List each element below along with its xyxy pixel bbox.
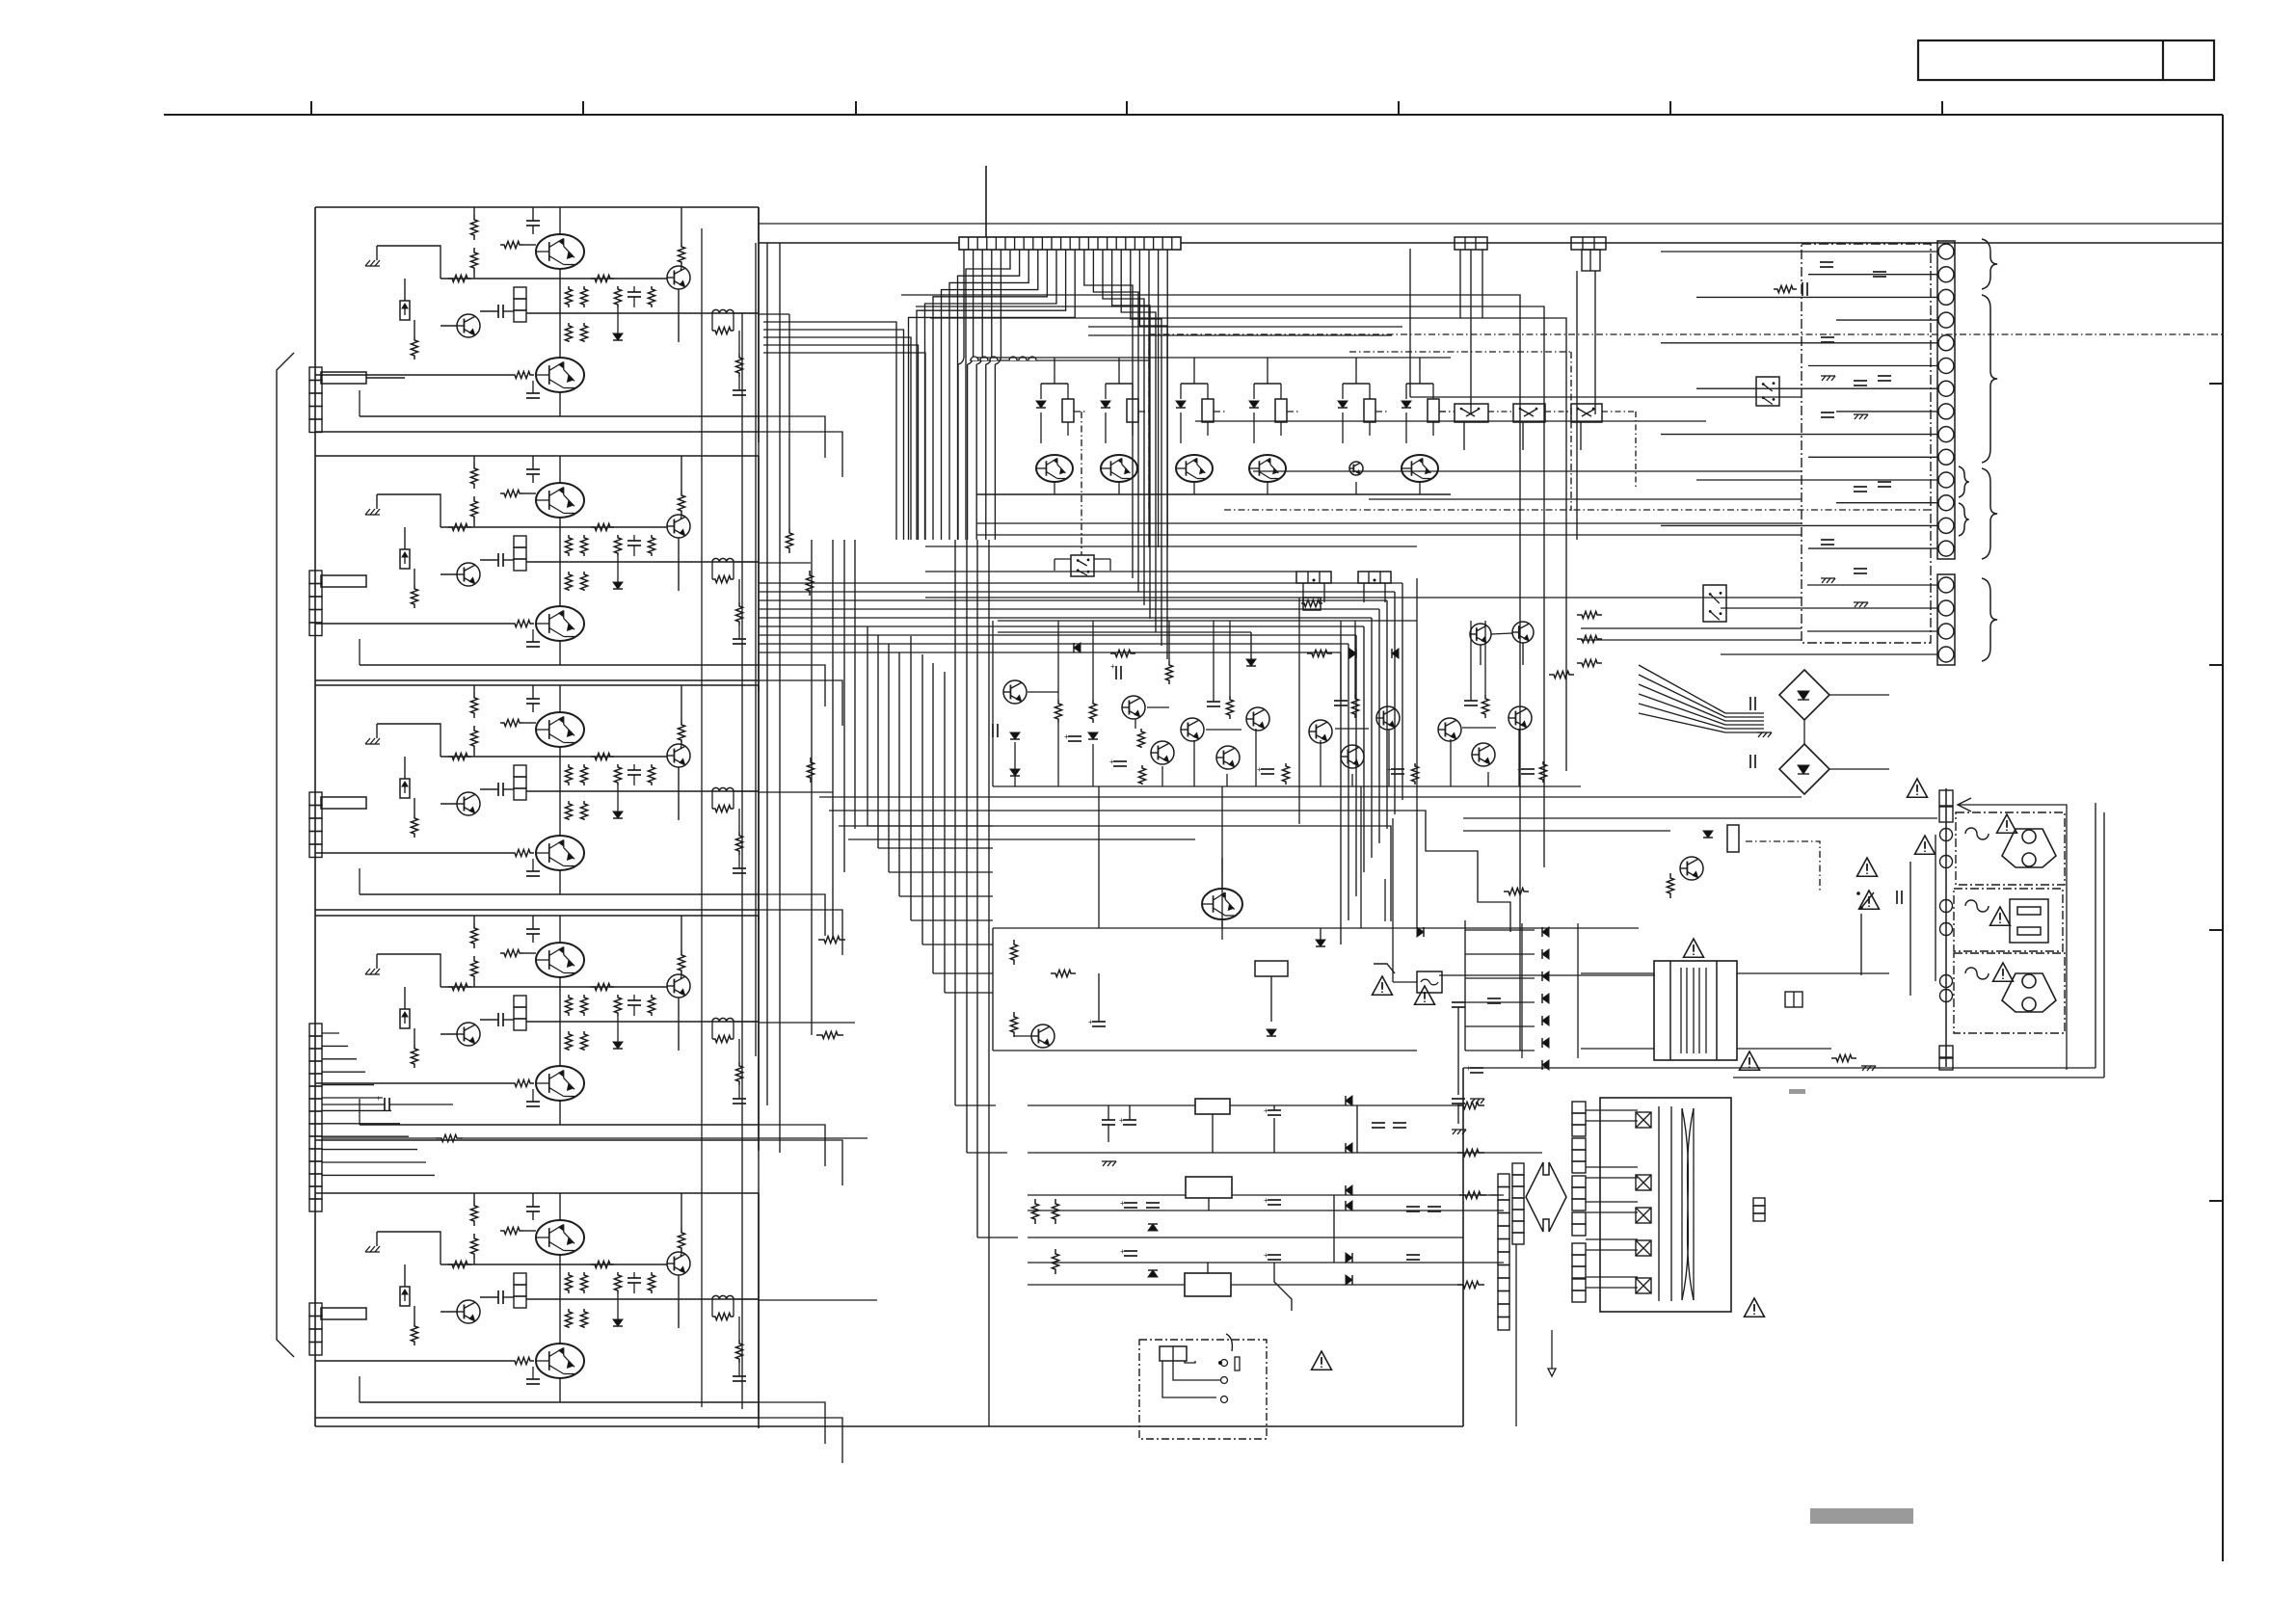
terminal circle [1938,404,1954,419]
capacitor CH5 C4 [526,1378,540,1380]
resistor CH2 R6 [591,523,614,530]
wire CH3 Q3 base [315,852,511,854]
resistor CH5 R14 [511,1357,534,1364]
warning mark [1857,858,1878,876]
wire stack to winding [1586,1109,1638,1111]
connector CN10 strip [959,237,1181,250]
svg-text:+: + [1120,1199,1125,1208]
transistor Q37 [1341,745,1364,768]
wire CN10 right staircase [1084,250,1133,578]
diode Db2 [1148,1270,1158,1277]
AC outlet box 2 [1954,889,2063,951]
terminal circle AC [1940,975,1953,988]
power transistor CH5 Q1 [536,1220,584,1255]
transistor CH5 Q2 [457,1300,480,1323]
wire CH4 bottom rails [360,1124,759,1126]
resistor [1364,399,1375,422]
diode [1402,401,1411,408]
transistor Q32 [1151,741,1174,764]
resistor CH5 R7 [411,1322,417,1345]
capacitor CH4 C1 [526,928,540,930]
warning mark [1997,814,2017,833]
inductor CH3 L1 [712,787,734,791]
wire CH1 vert Q1-Q3 [559,269,561,358]
capacitor CH2 C1 [526,468,540,470]
chassis ground CH1 [365,260,370,266]
capacitor C52 electrolytic [1487,998,1501,999]
title block [1918,40,2214,80]
resistor CH4 R2 [470,956,477,981]
resistor CH5 R8 [565,1272,572,1293]
connector CN2 [309,571,322,584]
transistor Q35 [1246,707,1269,731]
capacitor CH3 C3 [627,769,641,771]
IC1 lead [1212,1114,1214,1153]
wire CH3 [473,751,475,757]
resistor CH2 R1 [470,464,477,489]
capacitor cell tops [1207,701,1220,703]
transistor Q39 [1438,718,1461,741]
terminal circle AC [1940,990,1953,1002]
resistor CH2 R5 [448,523,471,530]
resistor Rs3 [1051,970,1076,976]
power transistor CH5 Q3 [536,1344,584,1378]
resistor [1127,399,1138,422]
capacitor C10 [992,724,994,737]
resistor CH1 R16 [735,354,742,377]
wire CH5 Q3 base [315,1360,511,1362]
wire CH1 mid rail [441,278,667,279]
resistor CH5 R1 [470,1201,477,1226]
resistor cell bottoms [1282,763,1289,785]
relay contacts K1 [1455,404,1488,422]
winding crossboxes [1636,1112,1651,1128]
driver block dash-dot boundary [1148,334,1150,510]
amplifier channel CH2 frame [315,455,759,457]
resistor CH1 R12 [614,286,621,307]
amplifier channel CH1 frame [315,206,759,208]
wire CH4 output [734,1021,759,1023]
capacitor CH5 C2 electrolytic [497,1290,499,1304]
svg-text:+: + [1110,662,1115,671]
terminal circle [1938,624,1954,639]
svg-text:+: + [1257,765,1262,774]
resistor R30b [1165,661,1172,684]
diode Dp1 [1542,949,1549,959]
bias block CH5 [514,1273,526,1285]
warning mark [1740,1051,1760,1070]
diode D14 [1349,649,1356,658]
wire dashdot [1074,411,1087,412]
wire CH2 vert Q1-Q3 [559,518,561,606]
wire CH2 rail2 [526,561,759,563]
resistor CH5 R15 [712,1313,734,1319]
wire CH3 Q4 leads [678,767,680,820]
resistor CH1 R2 [470,248,477,273]
capacitor CH1 C1 [526,220,540,222]
resistor bus R21 [806,571,813,596]
transistor Q43 [1512,622,1534,643]
wire strong verticals [1298,598,1300,824]
resistor CH1 R15 [712,327,734,333]
wire [1405,412,1407,443]
diode CH3 D1 [613,811,623,818]
svg-text:+: + [1119,1116,1124,1125]
diode D10 [1010,732,1020,739]
transistor CH2 Q2 [457,563,480,586]
wire cell base links [1206,729,1241,731]
resistor CH3 R5 [448,753,471,759]
wire CH1 output [734,312,759,314]
diode Dp0 [1542,927,1549,937]
transistor Qs2 darlington [1221,858,1223,872]
capacitor CH2 C5 [733,638,746,640]
resistor bus R22 [807,758,814,783]
brace small [1959,466,1969,497]
relay contacts K3 [1571,404,1602,422]
outlet 3 [2002,973,2056,1012]
resistor CH4 R15 [712,1035,734,1042]
resistor CH4 R14 [511,1079,534,1086]
ground G1 [1453,1130,1456,1134]
power transistor CH2 Q3 [536,606,584,641]
terminal strip SP2 [1937,574,1955,665]
resistor CH3 R2 [470,726,477,751]
wire diode bank rows [1464,920,1466,1051]
wire CH4 Q4 leads [678,998,680,1051]
arrow down [1551,1330,1553,1369]
capacitor CH1 C3 [627,291,641,293]
resistor CH4 R11 [580,1031,587,1051]
resistor CH5 R9 [580,1272,587,1293]
capacitor CH3 C5 [733,867,746,869]
wire CH3 rail2 [526,790,759,792]
left channel-group bracket [277,353,294,1357]
wire CH5 [473,1259,475,1264]
wire CH4 rail2 [526,1021,759,1023]
wire channel exits [759,313,789,315]
wire secondary [1515,1244,1517,1426]
svg-text:+: + [1109,758,1114,766]
inductor CH2 L1 [712,558,734,562]
svg-text:+: + [1088,1018,1093,1026]
resistor [1428,399,1439,422]
terminal circle [1938,495,1954,511]
diode D13 [1246,659,1256,666]
switch SW1 [1856,891,1860,895]
driver cell [1406,383,1433,385]
resistor CH4 R12 [614,995,621,1016]
bias block CH2 [514,536,526,547]
resistor Rb3 [1052,1249,1058,1274]
outlet 2 rect [2010,899,2048,943]
terminal circle [1938,449,1954,465]
resistor CH3 R4 [681,685,682,720]
bias block CH1 [514,287,526,299]
capacitors right box [1820,261,1833,263]
resistor cell tops [1226,696,1233,719]
diode CH5 D1 [613,1319,623,1326]
wire bridge [1803,720,1805,744]
terminal circle [1938,312,1954,328]
resistor CH2 R11 [580,572,587,591]
resistor CH2 R16 [735,602,742,625]
driver cell [1106,383,1133,385]
driver transistor CH1 Q4 [667,266,690,289]
capacitor CH5 C5 [733,1375,746,1377]
diode [1101,401,1110,408]
resistor [1062,399,1074,422]
connector 2cell [1785,992,1802,1007]
power transistor CH3 Q1 [536,712,584,747]
diode CH4 D1 [613,1042,623,1049]
wire CH5 Q4 leads [678,1275,680,1328]
chassis ground CH2 [365,509,370,515]
connector CN1 [309,367,322,381]
capacitor CH5 C3 [627,1277,641,1279]
terminal circle [1938,600,1954,616]
connector CN20 [1512,1163,1524,1175]
resistor bus R24 [816,1031,843,1038]
resistor CH3 R16 [735,832,742,855]
wire CH2 [473,521,475,527]
inductor CH4 L1 [712,1018,734,1022]
wire left input bus [314,207,316,1426]
resistor CH4 R7 [411,1045,417,1068]
wire CH4 mid rail [441,986,667,988]
capacitor Cb8 [1268,1254,1281,1256]
wire CH4 [473,981,475,987]
resistor CH3 R1 [470,693,477,718]
inductor CH5 L1 [712,1295,734,1299]
fuse F3 [1965,968,1989,979]
warning mark [1373,976,1393,995]
capacitor top right [1470,1067,1483,1069]
wire horizontal bus B [759,625,1364,627]
diode DA [1088,732,1098,739]
dash-dot link AC [1746,841,1820,891]
diode D11 [1010,769,1020,776]
capacitor cell bottoms electrolytic [1261,768,1274,770]
warning mark [1684,939,1704,957]
resistor CH2 R9 [580,535,587,556]
fusible resistor box [1303,598,1321,610]
resistor CH5 R6 [591,1261,614,1267]
diode Dp5 [1542,1038,1549,1048]
connector CN4 [309,1024,322,1036]
warning mark [1908,779,1928,797]
transistor array [1349,462,1363,475]
connector CN5 [309,1303,322,1317]
resistor CH2 R8 [565,535,572,556]
driver transistor CH5 Q4 [667,1252,690,1275]
bracket [1226,1334,1232,1351]
resistor CH5 R12 [614,1272,621,1293]
transistor Q42 [1470,624,1491,645]
wire relay stubs [1463,422,1465,450]
resistor Rs2 [1010,1012,1017,1037]
wire CH1 rail2 [526,312,759,314]
resistor CH3 R8 [565,764,572,785]
chassis ground CH5 [365,1246,370,1252]
capacitor CH5 C1 [526,1206,540,1208]
wire CH2 Q3 base [315,623,511,625]
thermal breaker [1417,971,1442,993]
trimmer CH3 VR1 [400,779,410,798]
transistor Q34 [1216,746,1240,769]
capacitor C51 electrolytic [1452,1001,1465,1003]
terminal circle [1938,577,1954,593]
capacitor CH2 C4 [526,641,540,643]
wire left feeders down [763,322,896,540]
wire dashdot [1287,411,1300,412]
resistor CH5 R10 [565,1309,572,1328]
ground G2 [1862,1066,1866,1071]
resistor CN4 line [436,1134,463,1141]
resistor CH2 R12 [614,535,621,556]
capacitor Cb5 [1124,1250,1137,1252]
resistor col A [1055,700,1061,723]
resistor CH2 R4 [681,456,682,491]
connector CN13 [1296,572,1331,583]
secondary block frame [1600,1098,1731,1312]
wire bottom rail [315,1425,1463,1427]
wire dashdot [1439,411,1453,412]
terminal line AC [1945,788,1947,1067]
resistor CH2 R15 [712,575,734,582]
power transistor CH4 Q3 [536,1066,584,1101]
wire horizontal bus A [759,582,1402,584]
wire CH1 [473,273,475,279]
connector CN1 housing [321,372,366,384]
connector squares top [1939,790,1953,806]
connector squares bottom [1939,1046,1953,1057]
capacitor CH4 C3 [627,999,641,1001]
resistor CH3 R14 [511,849,534,856]
wire dashdot [1375,411,1389,412]
wire CH1 bottom rails [360,415,759,417]
warning mark [1745,1298,1765,1317]
connector CN14 [1358,572,1391,583]
wire hop rail [970,359,1149,361]
resistor CH2 R13 [648,535,654,556]
wire to breaker [1392,818,1394,982]
wire power top [1463,817,1937,819]
terminal circle [1938,267,1954,282]
regulator IC3 [1185,1273,1231,1296]
wire CH4 vert Q1-Q3 [559,977,561,1066]
terminal circle [1938,427,1954,442]
relay contacts K2 [1513,404,1545,422]
wire CH2 input net [377,494,441,527]
bias block CH3 [514,765,526,777]
resistor CH1 R8 [565,286,572,307]
resistor CH3 R12 [614,764,621,785]
wire prot-to-sub verticals [1098,786,1100,928]
terminal circle AC [1940,829,1953,841]
wire CH2 bottom rails [360,664,759,666]
capacitor CH4 C5 [733,1098,746,1100]
terminal circle [1938,381,1954,396]
resistor CH3 R9 [580,764,587,785]
resistor CH4 R3 [500,949,523,956]
resistor CH3 R10 [565,801,572,820]
transistor Q41 [1508,706,1532,730]
connector stacks secondary [1572,1102,1586,1113]
capacitor Cb4 [1146,1202,1160,1204]
wire CH4 input net [377,954,441,987]
driver cell [1181,383,1208,385]
terminal circle [1938,541,1954,556]
resistor CH5 R3 [500,1227,523,1234]
resistor CH4 R4 [681,916,682,950]
wire AC mesh verticals [1935,835,1936,981]
diode D15 [1392,649,1399,658]
diode D51 [1417,927,1424,937]
connector CN21 [1753,1198,1765,1206]
top border rule [164,114,2223,116]
power transistor Q44 [1202,889,1242,919]
power transistor CH1 Q1 [536,234,584,269]
resistor R30 [1110,650,1135,656]
svg-text:+: + [1264,1251,1268,1260]
terminal circle [1938,359,1954,374]
ground bridge [1758,732,1762,737]
wire dashdot [1138,411,1152,412]
dash-dot relay link [1081,412,1082,555]
resistor R52 [1831,1054,1856,1061]
resistor CH5 R16 [735,1340,742,1363]
diode CH2 D1 [613,582,623,589]
relay coil RL2 [1255,961,1288,976]
resistor CH1 R3 [500,241,523,248]
ground symbols right box [1822,376,1826,381]
terminal circle [1938,647,1954,662]
regulator IC1 [1195,1099,1230,1114]
transistor array [1249,455,1286,482]
connector CN3 [309,792,322,806]
resistor CH2 R3 [500,490,523,496]
resistor CH2 R2 [470,496,477,521]
wire vertical bundle short [755,243,757,1056]
wire prot verticals [1014,742,1016,786]
AC mains plug section [1139,1340,1267,1439]
resistor R50 [1667,873,1673,898]
wire mesh vertical pair [1384,879,1386,921]
resistor CH2 R14 [511,620,534,626]
wire CH2 mid rail [441,526,667,528]
capacitor with resistor [1774,285,1797,292]
power transistor CH4 Q1 [536,943,584,977]
resistor CH1 R14 [511,371,534,378]
diode Dp3 [1542,994,1549,1003]
trimmer CH2 VR1 [400,549,410,569]
transistor Q38 [1376,706,1400,730]
wire top right links [1480,645,1482,665]
diode Dp4 [1542,1016,1549,1025]
wire CH1 input net [377,246,441,279]
capacitor Cs1 [1092,1021,1106,1023]
resistor CH4 R5 [448,983,471,990]
resistor CH5 R13 [648,1272,654,1293]
driver cell [1254,383,1281,385]
warning mark [1859,891,1880,909]
terminal strip SP [1937,241,1955,559]
resistor CH2 R10 [565,572,572,591]
transistor CH3 Q2 [457,792,480,815]
diode [1036,401,1046,408]
svg-text:+: + [1264,1196,1268,1205]
